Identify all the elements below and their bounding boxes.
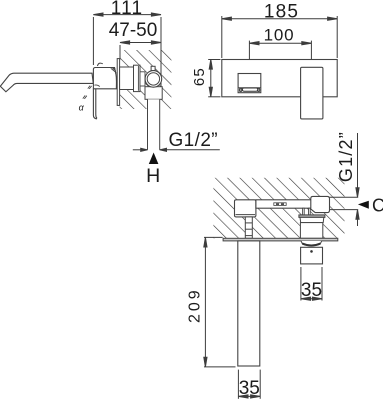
G1/2 dimension (side view) [133,148,220,151]
cartridge circle [145,71,162,88]
supply pipe [148,99,160,150]
wall plate band (plan) [223,238,338,241]
valve body cylinder (side view) [120,67,134,90]
svg-text:65: 65 [191,67,208,86]
dimension 35 right [301,267,322,301]
svg-text:G1/2”: G1/2” [336,131,356,182]
lever pivot curve [94,85,99,87]
small square on top of cartridge [151,66,155,70]
flange ring [134,65,141,91]
svg-text:35: 35 [239,378,260,399]
wall hatch (plan view) [213,178,344,239]
body bar (plan) [256,200,312,208]
angle annotation prime marks [83,86,92,99]
connector piece [140,72,145,86]
C marker lines [326,197,358,209]
dimension 65 [208,60,220,97]
C triangle marker [358,201,369,209]
escutcheon upper body [300,217,324,222]
handle rotation arc [97,63,102,66]
neck through wall (plan) [245,217,252,238]
spout (side view) [0,73,93,92]
handle block (plan) [311,196,330,212]
escutcheon plate (side view) [117,59,119,106]
dome under plate [301,241,322,246]
svg-text:111: 111 [111,0,143,19]
handle tilt wedge lines [111,68,119,89]
elbow rim line [236,214,256,216]
svg-text:α: α [79,103,85,113]
handle (front view) [301,67,323,119]
wall plate (front view) [222,60,337,97]
dimension 35 bottom [238,370,260,399]
svg-text:H: H [146,165,160,187]
dimension 111 line [93,13,161,92]
handle body (side view) [93,68,116,89]
H marker triangle [149,153,159,165]
svg-text:100: 100 [264,26,295,45]
lever (side view) [93,89,96,119]
aerator corner ears [239,88,241,91]
svg-text:209: 209 [186,287,203,323]
C lower arrow [356,210,359,226]
handle set-screw dot [310,250,313,253]
spout tube (plan) [238,241,260,366]
dimension 47-50 line [120,41,161,60]
spout elbow block (plan) [235,200,256,217]
escutcheon top rim (plan) [299,215,325,218]
cartridge block [145,87,162,100]
svg-text:C: C [372,196,383,216]
svg-text:47-50: 47-50 [109,20,158,41]
svg-text:35: 35 [301,280,322,301]
svg-text:G1/2”: G1/2” [169,130,219,151]
dimension 209 [204,237,236,367]
handle block under plate (plan) [301,247,323,264]
wall hatch (side view) [120,50,172,109]
escutcheon cylinder [300,223,322,239]
aerator slot [242,88,257,91]
svg-text:185: 185 [264,1,299,22]
spout outlet (front view) [238,74,261,93]
dimension 100 line [249,41,311,74]
dimension 185 line [222,16,337,58]
aerator section line [238,87,261,89]
label plate on bar [274,203,286,206]
G1/2 leader with down arrow [356,133,359,197]
escutcheon posts under bar [303,208,311,215]
